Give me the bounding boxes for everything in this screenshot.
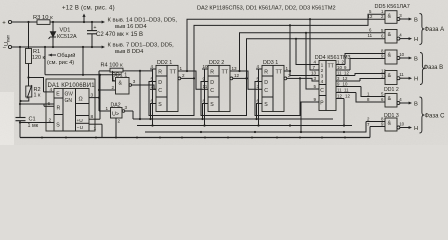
svg-text:TT: TT [222, 70, 229, 76]
pin 8 +U of DA1 [89, 118, 100, 120]
pin 12 notQ3 of DD4 [336, 98, 344, 100]
wire bus 3 from DD2.2 Q to gate2 input1 [240, 33, 386, 71]
node junction top rail at R1 drop [27, 21, 29, 23]
svg-text:Н: Н [414, 77, 418, 83]
svg-text:1: 1 [321, 63, 324, 69]
svg-text:+: + [2, 21, 6, 27]
pin 13 D3 of DD4 [313, 75, 319, 77]
svg-text:&: & [119, 81, 123, 87]
wire gate6 input2 drop [370, 126, 385, 128]
pin 12 notQ output of DD2 2 [230, 77, 233, 80]
wire bus drops from flip-flop S pins [150, 104, 152, 120]
pin 1 input of DA2 [99, 110, 111, 112]
svg-text:DD1 2: DD1 2 [384, 87, 399, 93]
svg-text:10: 10 [399, 121, 404, 126]
pin 1 -U of DA1 [89, 123, 102, 125]
svg-text:R3 10 к: R3 10 к [33, 15, 53, 21]
svg-text:D: D [264, 80, 268, 86]
wire R2 node to DA1 R and S pins [20, 103, 54, 105]
pin 5 D of DD2 1 [150, 81, 156, 83]
wire bus 4 from DD2.2 notQ to gate2 input2 and DD4 D1 [247, 39, 386, 79]
wire DD3.1 Q riser to bus 2 [284, 25, 290, 71]
svg-text:3: 3 [133, 79, 136, 84]
resistor R4 [110, 68, 123, 72]
svg-text:В: В [414, 56, 418, 62]
svg-text:1: 1 [180, 66, 183, 71]
node junction top rail at VD1 [52, 21, 54, 23]
wire common drop to C1 [19, 47, 21, 118]
svg-text:TT: TT [170, 70, 177, 76]
svg-text:4: 4 [50, 87, 53, 93]
wire bottom bus 132 [145, 131, 366, 133]
svg-text:S: S [56, 122, 60, 128]
svg-text:10: 10 [343, 82, 348, 87]
pin 3 output of DA2 [122, 110, 125, 113]
pin 3 C of DD3 1 [256, 88, 262, 90]
svg-text:C: C [320, 88, 324, 94]
wire R2 bottom to C1 node [21, 97, 29, 101]
svg-text:D: D [158, 80, 162, 86]
svg-text:(см. рис 4): (см. рис 4) [47, 60, 74, 66]
svg-text:C: C [264, 88, 268, 94]
svg-text:12: 12 [345, 94, 350, 99]
resistor R2 variable [26, 86, 32, 97]
svg-text:4: 4 [314, 60, 317, 65]
pin 10 output of DD1.3 [397, 126, 400, 129]
svg-text:&: & [388, 73, 392, 79]
wire DD4 P connection [301, 102, 313, 132]
svg-text:5: 5 [314, 84, 317, 89]
wire common rail [12, 46, 102, 48]
node phase B group [420, 53, 425, 85]
svg-text:E: E [56, 91, 60, 97]
svg-text:4: 4 [151, 64, 154, 69]
wire bottom bus 125.5 [137, 125, 352, 127]
svg-text:2: 2 [49, 117, 52, 123]
gate DD1.2 NAND [385, 94, 397, 108]
svg-text:S: S [264, 102, 268, 108]
svg-text:R: R [158, 69, 162, 75]
op-amp timer DA1 KR1006VI1 outer box [46, 79, 95, 131]
svg-text:1 мк: 1 мк [28, 123, 39, 129]
node junction common rail at wire A [44, 46, 46, 48]
svg-text:&: & [388, 53, 392, 59]
svg-text:DD2 2: DD2 2 [209, 60, 224, 66]
svg-text:C: C [158, 88, 162, 94]
svg-text:4: 4 [321, 79, 324, 85]
pin 7 D2 of DD4 [313, 69, 319, 71]
wire +12V up arrow [83, 16, 85, 22]
capacitor C1 [16, 117, 26, 119]
wire DD4 notQ3 to bus [343, 99, 345, 126]
pin 5 C of DD4 [313, 88, 319, 90]
wire bottom bus 137.5 [20, 137, 370, 139]
gate DD5.2 NAND [385, 30, 397, 44]
svg-text:6: 6 [48, 101, 51, 107]
pin 13 Q output of DD2 2 [230, 70, 235, 72]
pin 11 notQ2 of DD4 [336, 92, 356, 94]
pin 2 notQ output of DD3 1 [284, 77, 287, 80]
svg-text:Ω: Ω [79, 97, 83, 103]
svg-text:120 к: 120 к [32, 55, 45, 61]
wire DD4 Q2 to gate3 input2 [350, 59, 385, 71]
svg-text:D: D [210, 80, 214, 86]
svg-text:DD5 К561ЛА7: DD5 К561ЛА7 [375, 4, 410, 10]
node junction common rail left [19, 46, 21, 48]
svg-text:4: 4 [257, 64, 260, 69]
wire DD4 D3 from DD3.1 Q [290, 71, 313, 76]
pin 11 C of DD2 2 [202, 88, 208, 90]
latch DD4 K561TM3 [319, 61, 336, 111]
svg-text:выв 16 DD4: выв 16 DD4 [115, 24, 147, 30]
svg-text:TT: TT [276, 70, 283, 76]
pin 2 ground of DA2 [115, 118, 117, 138]
svg-text:В: В [414, 101, 418, 107]
svg-text:Н: Н [414, 37, 418, 43]
svg-text:Фаза С: Фаза С [425, 113, 446, 119]
svg-text:Фаза В: Фаза В [424, 65, 444, 71]
svg-text:Общий: Общий [57, 52, 75, 59]
wire DD4 Q1 to gate3 input1 [345, 54, 385, 65]
gate DD1.1 NAND [116, 78, 130, 95]
pin 4 R of DD3 1 [256, 68, 262, 70]
node junction common rail at VD1 [52, 46, 54, 48]
svg-text:DD2 1: DD2 1 [157, 60, 172, 66]
pin 10 Q2 of DD4 [336, 69, 350, 71]
svg-text:13: 13 [381, 73, 386, 78]
pin 3 D4 of DD4 [313, 80, 319, 82]
svg-text:13: 13 [311, 71, 317, 76]
wire gate5 input2 from DD4 [356, 93, 385, 103]
pin 11 Q3 of DD4 [336, 75, 355, 77]
svg-text:11: 11 [368, 33, 373, 38]
pin 8 S of DD2 2 [202, 103, 208, 105]
gate DD1.3 NAND [385, 118, 397, 131]
wire R4 node down to net [139, 71, 141, 119]
svg-text:G\V: G\V [65, 91, 74, 97]
node junction common rail at C2 [91, 46, 93, 48]
svg-text:DA2 КР1185СП53, DD1 К561ЛА7,: DA2 КР1185СП53, DD1 К561ЛА7, DD2, DD3 К5… [197, 5, 336, 11]
svg-text:К выв. 14 DD1–DD3, DD5,: К выв. 14 DD1–DD3, DD5, [108, 17, 178, 23]
svg-text:3: 3 [91, 93, 94, 99]
svg-text:TT: TT [328, 64, 335, 70]
svg-text:8: 8 [91, 114, 94, 120]
svg-text:GN: GN [65, 98, 73, 104]
svg-text:1: 1 [94, 126, 97, 132]
svg-text:2: 2 [182, 73, 185, 78]
wire +12V top rail [12, 21, 37, 23]
svg-text:12: 12 [337, 94, 342, 99]
svg-text:C: C [210, 88, 214, 94]
svg-text:&: & [388, 121, 392, 127]
node junction dots on bus 137 [41, 136, 43, 138]
wire DD4 Q4 to gate4 input2 [360, 79, 385, 82]
pin 3 output of DA1 [89, 97, 99, 99]
svg-text:12: 12 [344, 71, 349, 76]
node junction dots on bus 125 and 132 [289, 124, 291, 126]
svg-text:DD1 3: DD1 3 [384, 113, 399, 119]
svg-text:−U: −U [77, 125, 84, 131]
svg-text:+U: +U [77, 118, 84, 124]
pin 2 notQ output of DD2 1 [178, 77, 181, 80]
wire bus 2 from DD2.1 notQ to gate1 input1 [194, 14, 385, 78]
pin 4 R of DD2 1 [150, 68, 156, 70]
svg-text:VD1: VD1 [60, 28, 71, 34]
net label Upit [4, 35, 10, 46]
wire DD3.1 feedback notQ to D [255, 78, 300, 115]
node junction top rail at C2 [91, 21, 93, 23]
svg-text:2: 2 [118, 119, 121, 124]
pin 9 P of DD4 [313, 101, 319, 103]
flip-flop DD2 1 [156, 65, 178, 111]
svg-text:3: 3 [314, 76, 317, 81]
wire DD4 D2 from bus 1 [310, 19, 313, 70]
wire DD4 D4 from DD3.1 notQ [300, 78, 313, 81]
node junction top rail at +12 arrow [83, 21, 85, 23]
pin 3 output of DD5.1 [397, 18, 400, 21]
svg-text:10: 10 [203, 64, 209, 69]
capacitor C2 polarized [91, 22, 93, 31]
wire gate5 input1 from DD4 [361, 87, 385, 97]
wire DD2.2 Q to DD3.1 C [235, 71, 256, 89]
label Obschiy (common, see fig 4) [49, 54, 52, 57]
timer DA1 inner cells [54, 89, 89, 132]
pin 2 S of DA1 [20, 122, 54, 124]
wire gate6 input1 from bus [366, 121, 385, 123]
svg-text:DD3 1: DD3 1 [263, 60, 278, 66]
pin 2 Q1 of DD4 [336, 64, 345, 66]
pin 4 output of DD5.2 [397, 37, 400, 40]
svg-text:DA2: DA2 [111, 102, 121, 108]
wire DD2.1 feedback notQ to D [149, 78, 194, 115]
svg-text:+: + [94, 25, 97, 31]
svg-text:S: S [158, 102, 162, 108]
pin 10 output of DD5.3 [397, 57, 400, 60]
wire DD2.2 feedback notQ to D [201, 78, 247, 115]
node phase A group [420, 14, 425, 45]
pin 6 R of DA1 [44, 105, 54, 107]
pin 4 output of DD1.2 [397, 102, 400, 105]
svg-text:11: 11 [399, 72, 404, 77]
svg-text:3: 3 [321, 74, 324, 80]
gate DD5.3 NAND [385, 50, 397, 64]
svg-text:13: 13 [232, 66, 238, 71]
svg-text:В: В [414, 17, 418, 23]
svg-text:11: 11 [337, 88, 342, 93]
wire DA1 out riser to R4 [98, 71, 100, 111]
wire bus 1 from DD2.1 Q to gate1 input2 [187, 19, 385, 71]
svg-text:R: R [210, 69, 214, 75]
svg-text:7: 7 [313, 65, 316, 70]
pin 5 D of DD3 1 [256, 81, 262, 83]
pin 11 output of DD5.4 [397, 77, 400, 80]
voltage supervisor DA2 [111, 108, 123, 119]
svg-text:1: 1 [106, 106, 109, 111]
svg-text:11: 11 [203, 84, 208, 89]
pin 3 output of DD1.1 [129, 84, 132, 87]
svg-text:9: 9 [314, 97, 317, 102]
gate DD5.4 NAND [385, 71, 397, 85]
pin 1 Q output of DD2 1 [178, 70, 183, 72]
svg-text:1: 1 [112, 76, 115, 81]
wire from A up at 83 [82, 47, 84, 75]
svg-text:1: 1 [286, 66, 289, 71]
wire R1 chain vertical [28, 22, 30, 49]
flip-flop DD3 1 [262, 65, 284, 111]
resistor R1 [26, 49, 32, 64]
svg-text:1 к: 1 к [34, 93, 41, 99]
svg-text:Фаза А: Фаза А [425, 27, 445, 33]
svg-text:выв 8 DD4: выв 8 DD4 [115, 49, 144, 55]
svg-text:12: 12 [234, 73, 240, 78]
zener diode VD1 [52, 22, 54, 47]
node phase C group [420, 97, 425, 133]
pin 1 Q output of DD3 1 [284, 70, 289, 72]
svg-text:R: R [57, 106, 61, 112]
svg-text:КС512А: КС512А [57, 34, 77, 40]
svg-text:&: & [388, 96, 392, 102]
pin 1 Q4 of DD4 [336, 80, 360, 82]
svg-text:R4 100 к: R4 100 к [101, 63, 124, 69]
pin 9 notQ1 of DD4 [336, 86, 361, 88]
pin 4 D1 of DD4 [313, 64, 319, 66]
resistor R3 [37, 20, 50, 25]
svg-text:2: 2 [112, 85, 115, 90]
svg-text:10: 10 [399, 52, 404, 57]
svg-text:Uпит: Uпит [4, 35, 10, 46]
pin 6 S of DD3 1 [256, 103, 262, 105]
svg-text:+12 В (см. рис. 4): +12 В (см. рис. 4) [62, 6, 115, 12]
svg-text:10: 10 [337, 65, 342, 70]
pin 4 E of DA1 [44, 91, 55, 93]
svg-text:12: 12 [343, 76, 348, 81]
wire net S pins y119 [133, 118, 333, 120]
pin 3 C of DD2 1 [150, 88, 156, 90]
wire DD2.1 Q to DD2.2 C [183, 71, 202, 89]
svg-text:S: S [210, 102, 214, 108]
svg-text:3: 3 [125, 105, 128, 110]
svg-text:U>: U> [112, 111, 119, 117]
pin 10 R of DD2 2 [202, 68, 208, 70]
svg-text:2: 2 [321, 68, 324, 74]
svg-text:К выв. 7 DD1–DD3, DD5,: К выв. 7 DD1–DD3, DD5, [108, 42, 175, 48]
svg-text:11: 11 [337, 71, 342, 76]
svg-text:R: R [264, 69, 268, 75]
pin 9 D of DD2 2 [202, 81, 208, 83]
pin 2 of DD1.1 [99, 89, 116, 91]
wire tap to DD1.1 input1 [113, 71, 116, 81]
pin 6 S of DD2 1 [150, 103, 156, 105]
flip-flop DD2 2 [208, 65, 230, 111]
svg-text:C2 470 мк × 15 В: C2 470 мк × 15 В [96, 32, 143, 38]
wire R4 output [123, 70, 152, 72]
svg-text:&: & [388, 32, 392, 38]
wire DD4 Q3 to gate4 input1 [355, 74, 385, 76]
svg-text:11: 11 [344, 88, 349, 93]
svg-text:Н: Н [414, 126, 418, 132]
gate DD5.1 NAND [385, 11, 397, 24]
svg-text:&: & [388, 13, 392, 19]
wire A common distribution above DA1 [44, 47, 46, 75]
wire riser R pins common reset net [152, 69, 154, 126]
svg-text:C1: C1 [29, 117, 36, 123]
wire DD4 C from bus 3 [306, 33, 313, 89]
